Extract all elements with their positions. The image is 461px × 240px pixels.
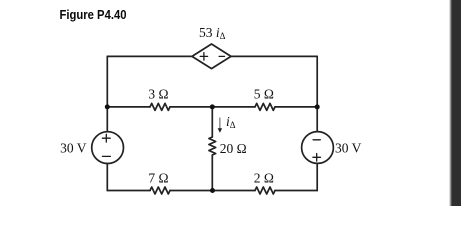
- svg-text:20 Ω: 20 Ω: [220, 141, 247, 156]
- wire left vertical lower (left source bottom to bottom-left corner): [106, 164, 108, 191]
- svg-text:3 Ω: 3 Ω: [148, 86, 168, 101]
- resistor R 2ohm zigzag: [255, 187, 275, 194]
- svg-text:iΔ: iΔ: [226, 114, 236, 130]
- plus sign inside left source: [102, 134, 110, 142]
- svg-text:2 Ω: 2 Ω: [254, 171, 274, 186]
- wire bottom-right horizontal: [275, 190, 317, 192]
- wire middle-left horizontal (node a to 3ohm): [107, 106, 150, 108]
- resistor R 7ohm zigzag: [150, 187, 170, 194]
- wire left vertical (top-left corner to left source top): [106, 56, 108, 131]
- svg-text:53 iΔ: 53 iΔ: [199, 25, 226, 41]
- wire middle-right horizontal (5ohm to node c): [275, 106, 317, 108]
- svg-text:30 V: 30 V: [335, 141, 362, 156]
- svg-text:7 Ω: 7 Ω: [148, 171, 168, 186]
- current arrow i-delta (down): [218, 118, 222, 133]
- wire center vertical upper (node b to 20ohm): [211, 107, 213, 137]
- wire bottom-center horizontal: [170, 190, 255, 192]
- voltage source V2 30V right circle: [302, 132, 334, 164]
- minus sign inside diamond: [219, 55, 224, 57]
- resistor R 3ohm zigzag: [150, 103, 170, 110]
- resistor R 5ohm zigzag: [255, 103, 275, 110]
- junction node c dot: [315, 104, 320, 109]
- wire right vertical lower (right source bottom to bottom-right corner): [316, 164, 318, 191]
- resistor R 20ohm zigzag vertical: [209, 137, 216, 155]
- wire right vertical upper (top-right corner to right source top): [316, 56, 318, 131]
- svg-text:30 V: 30 V: [60, 141, 87, 156]
- wire top-left horizontal (top-left corner to diamond left tip): [107, 55, 192, 57]
- wire middle-center horizontal (3ohm to node b): [170, 106, 255, 108]
- junction node b dot: [210, 104, 215, 109]
- plus sign inside right source: [313, 154, 321, 162]
- page edge dark bar: [449, 0, 461, 206]
- wire bottom-left horizontal: [107, 190, 150, 192]
- svg-text:5 Ω: 5 Ω: [254, 86, 274, 101]
- wire center vertical lower (20ohm to bottom node): [211, 155, 213, 191]
- junction node a dot: [105, 104, 110, 109]
- minus sign inside left source: [102, 155, 110, 157]
- voltage source V1 30V left circle: [92, 132, 124, 164]
- wire top-right horizontal (diamond right tip to top-right corner): [231, 55, 317, 57]
- minus sign inside right source: [313, 139, 320, 141]
- dependent source diamond 53 i-delta: [192, 44, 231, 69]
- plus sign inside diamond: [200, 53, 207, 60]
- svg-text:Figure P4.40: Figure P4.40: [60, 7, 127, 22]
- junction bottom node dot: [210, 188, 215, 193]
